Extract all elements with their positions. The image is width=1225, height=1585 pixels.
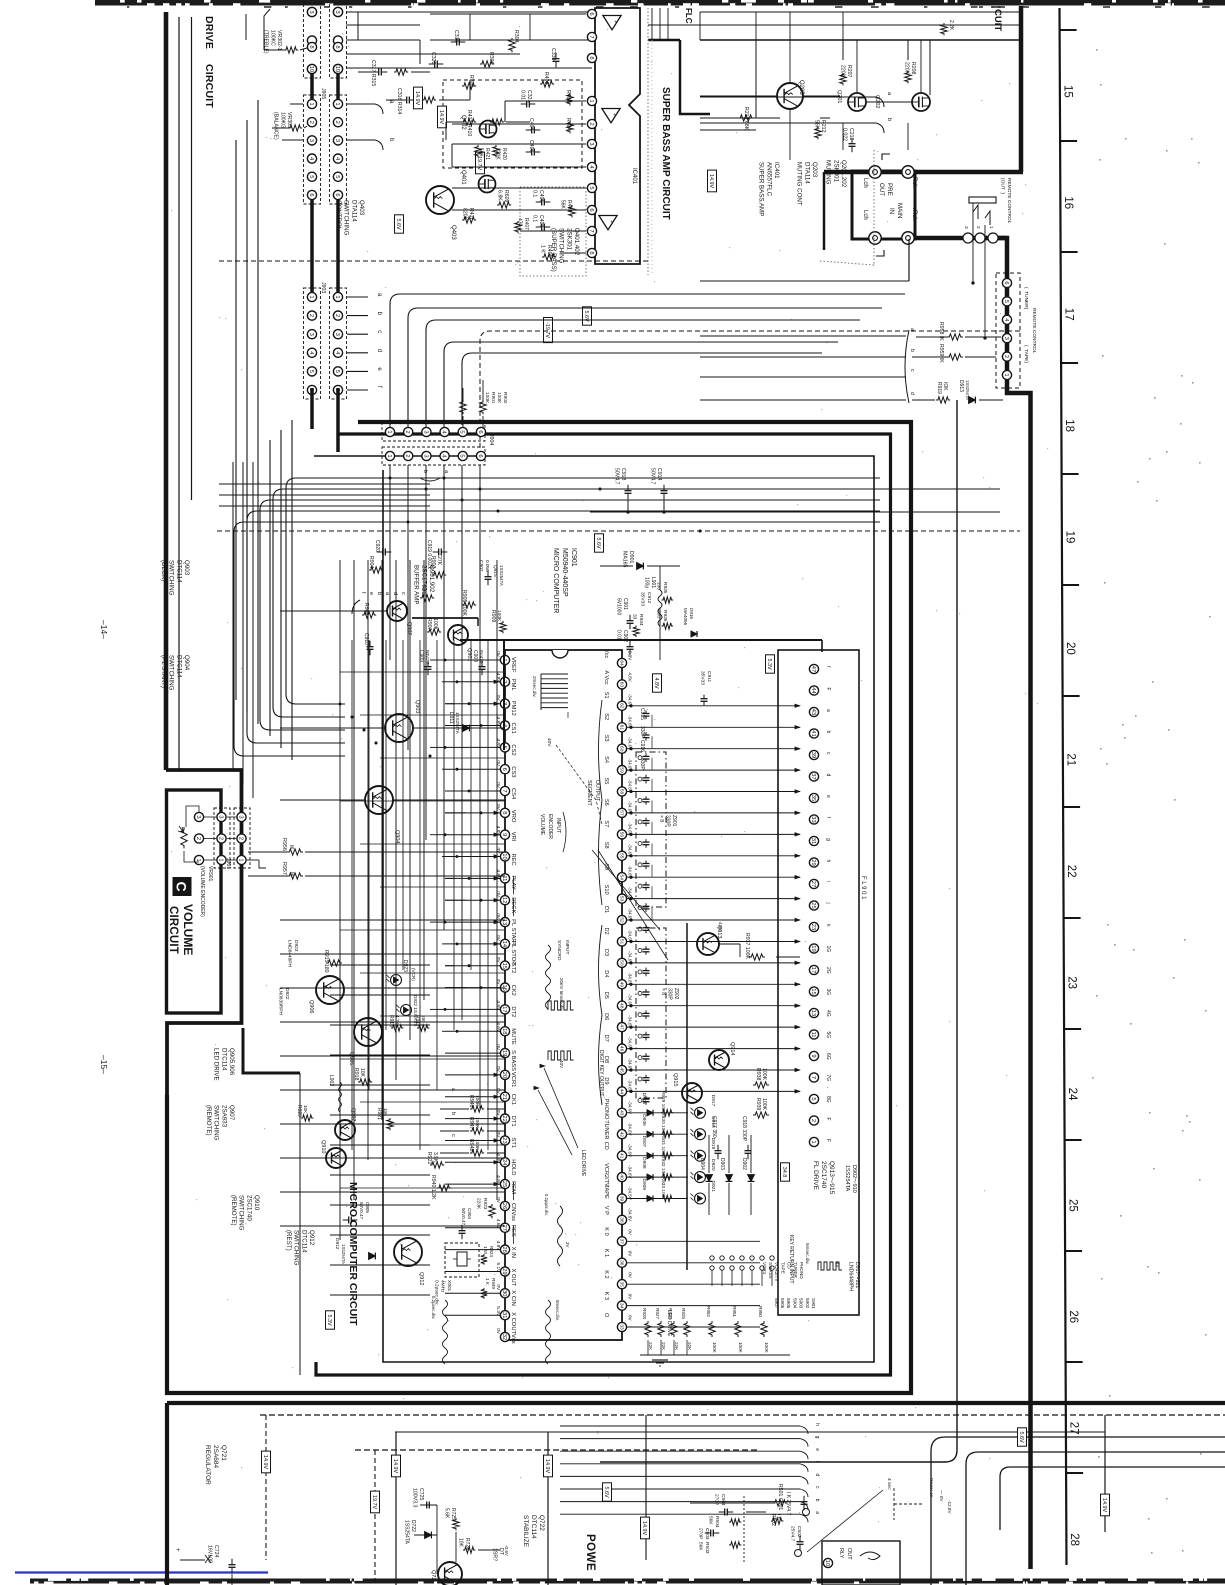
svg-text:F: F — [825, 1139, 831, 1142]
svg-text:ENCODER: ENCODER — [547, 814, 553, 839]
svg-text:DTC114: DTC114 — [175, 560, 182, 583]
svg-text:100µ: 100µ — [644, 577, 650, 588]
svg-text:h: h — [814, 1423, 820, 1426]
svg-text:0V: 0V — [495, 848, 501, 855]
svg-text:100K: 100K — [738, 1342, 743, 1354]
svg-text:10: 10 — [501, 853, 507, 859]
svg-text:42: 42 — [618, 1132, 624, 1138]
svg-text:Q401: Q401 — [460, 170, 466, 185]
svg-text:38: 38 — [618, 1217, 624, 1223]
svg-text:SWITCHING: SWITCHING — [168, 655, 175, 691]
svg-text:(REMOTE): (REMOTE) — [230, 1195, 237, 1226]
svg-text:Q912: Q912 — [418, 1272, 424, 1285]
svg-text:C911: C911 — [706, 671, 712, 682]
svg-text:-34.6V: -34.6V — [628, 1165, 633, 1178]
svg-text:D901: D901 — [628, 551, 634, 564]
svg-text:(REST): (REST) — [285, 1230, 292, 1251]
svg-text:DTC114: DTC114 — [300, 1230, 307, 1253]
svg-text:( TAPE): ( TAPE) — [1023, 345, 1029, 363]
svg-text:24: 24 — [501, 1159, 507, 1166]
svg-text:21: 21 — [1064, 753, 1076, 766]
svg-text:D903: D903 — [719, 1158, 725, 1170]
svg-text:CS3: CS3 — [510, 766, 516, 777]
svg-text:D920: D920 — [710, 1159, 716, 1171]
svg-text:0V: 0V — [495, 1044, 501, 1051]
svg-text:c: c — [376, 330, 382, 333]
svg-text:3: 3 — [1003, 337, 1009, 340]
svg-text:1: 1 — [810, 1140, 816, 1143]
svg-text:56K: 56K — [698, 1542, 704, 1551]
svg-text:5: 5 — [588, 186, 594, 189]
svg-text:g: g — [825, 838, 831, 841]
svg-text:Q910: Q910 — [253, 1195, 260, 1211]
svg-text:14.9V: 14.9V — [641, 1521, 647, 1535]
svg-text:0V: 0V — [495, 1132, 501, 1139]
svg-text:(REMOTE): (REMOTE) — [205, 1105, 212, 1136]
svg-text:15: 15 — [1061, 85, 1073, 98]
svg-text:3: 3 — [334, 333, 340, 336]
svg-text:— 0V: — 0V — [939, 1490, 944, 1502]
svg-text:2SC1740: 2SC1740 — [245, 1195, 252, 1221]
svg-text:23: 23 — [1065, 976, 1077, 989]
svg-text:0V: 0V — [495, 1088, 501, 1095]
svg-text:(SUPER BASS): (SUPER BASS) — [550, 228, 557, 272]
svg-text:3: 3 — [217, 815, 223, 818]
svg-text:0.1: 0.1 — [531, 190, 537, 197]
svg-text:R902: R902 — [502, 392, 508, 404]
svg-text:5: 5 — [459, 454, 465, 457]
svg-text:6: 6 — [477, 454, 483, 457]
svg-text:CK1: CK1 — [510, 1094, 516, 1105]
svg-text:PHONO: PHONO — [799, 1262, 804, 1279]
svg-text:R931 100: R931 100 — [660, 1134, 666, 1155]
svg-text:50V4.7: 50V4.7 — [649, 468, 655, 485]
svg-text:0.2µsec.div.: 0.2µsec.div. — [544, 1194, 549, 1216]
svg-text:35: 35 — [810, 795, 816, 801]
svg-text:220K: 220K — [476, 1198, 482, 1210]
svg-text:C310: C310 — [453, 30, 459, 43]
svg-text:100KG: 100KG — [279, 112, 285, 128]
svg-text:10: 10 — [824, 1560, 830, 1566]
svg-text:D902～910: D902～910 — [851, 1165, 857, 1193]
svg-text:R932 100: R932 100 — [660, 1155, 666, 1176]
svg-text:5: 5 — [1003, 300, 1009, 303]
svg-text:SWITCHING: SWITCHING — [168, 560, 175, 596]
svg-text:VCR1: VCR1 — [510, 1072, 516, 1087]
svg-text:0V: 0V — [495, 957, 501, 964]
svg-text:22K: 22K — [648, 1342, 653, 1351]
svg-text:C904: C904 — [467, 1208, 472, 1219]
svg-text:MA4056: MA4056 — [683, 608, 688, 626]
svg-text:2msec.div.: 2msec.div. — [532, 676, 537, 698]
svg-text:8: 8 — [308, 45, 314, 48]
svg-text:d: d — [392, 592, 398, 595]
svg-text:VOLUME: VOLUME — [181, 904, 195, 955]
svg-text:10K: 10K — [303, 1105, 308, 1114]
svg-text:25: 25 — [501, 1181, 507, 1187]
svg-text:64: 64 — [618, 660, 624, 666]
svg-text:1: 1 — [308, 102, 314, 105]
svg-text:330P: 330P — [665, 815, 671, 827]
svg-text:Q203: Q203 — [798, 80, 804, 95]
svg-text:37: 37 — [810, 773, 816, 779]
svg-text:D905: D905 — [641, 1093, 647, 1105]
svg-text:VCR1: VCR1 — [762, 1262, 767, 1275]
svg-text:a: a — [825, 709, 831, 712]
svg-text:R936: R936 — [662, 610, 668, 622]
svg-text:INPUT: INPUT — [564, 940, 570, 954]
svg-text:R609: R609 — [503, 190, 509, 203]
svg-text:5: 5 — [334, 370, 340, 373]
svg-text:5903: 5903 — [799, 1298, 804, 1309]
svg-text:1: 1 — [334, 295, 340, 298]
svg-text:CK2: CK2 — [510, 985, 516, 996]
svg-text:56K: 56K — [708, 1516, 714, 1525]
svg-text:K 1: K 1 — [603, 1249, 609, 1257]
svg-text:5.6V: 5.6V — [603, 1486, 609, 1497]
svg-text:5msec.div.: 5msec.div. — [555, 1300, 560, 1321]
svg-text:50: 50 — [618, 960, 624, 966]
svg-text:d: d — [376, 349, 382, 352]
svg-text:1: 1 — [237, 858, 243, 861]
svg-text:26: 26 — [501, 1203, 507, 1209]
svg-text:+: + — [174, 1548, 180, 1552]
svg-text:C503: C503 — [704, 1528, 710, 1540]
svg-text:SWITCHING: SWITCHING — [343, 200, 350, 236]
svg-text:CONTROL: CONTROL — [335, 200, 342, 231]
svg-text:rRch: rRch — [911, 208, 917, 221]
svg-text:5.6V: 5.6V — [395, 218, 401, 229]
svg-text:2: 2 — [810, 1119, 816, 1122]
svg-text:-34.6V: -34.6V — [628, 1144, 633, 1157]
svg-text:Lch: Lch — [862, 178, 868, 188]
svg-text:45: 45 — [618, 1067, 624, 1073]
svg-text:R939: R939 — [755, 1098, 761, 1111]
svg-text:SWITCHING: SWITCHING — [213, 1105, 220, 1141]
svg-text:1SS254TA: 1SS254TA — [404, 1520, 410, 1544]
svg-text:7: 7 — [810, 1076, 816, 1079]
svg-text:R929 100: R929 100 — [660, 1091, 666, 1112]
svg-text:AN6557FLC: AN6557FLC — [765, 162, 772, 197]
svg-text:17: 17 — [501, 1006, 507, 1012]
svg-text:14: 14 — [501, 941, 507, 948]
svg-text:1: 1 — [334, 102, 340, 105]
svg-text:Vss: Vss — [510, 1334, 516, 1344]
svg-text:M50940-440SP: M50940-440SP — [561, 548, 568, 597]
svg-text:S8: S8 — [603, 842, 609, 849]
svg-text:F L 9 0 1: F L 9 0 1 — [860, 876, 866, 900]
svg-text:2: 2 — [217, 837, 223, 840]
svg-text:IOK: IOK — [942, 382, 948, 391]
svg-text:SUPER BASS AMP CIRCUIT: SUPER BASS AMP CIRCUIT — [660, 87, 671, 220]
svg-text:S5: S5 — [603, 778, 609, 785]
svg-text:1SS254TA: 1SS254TA — [844, 1165, 850, 1192]
svg-text:C918 330P: C918 330P — [741, 1116, 747, 1142]
svg-text:0V: 0V — [495, 1197, 501, 1204]
svg-text:14.9V: 14.9V — [1101, 1498, 1107, 1512]
svg-text:-0.6V: -0.6V — [504, 1545, 509, 1557]
svg-text:S3: S3 — [603, 735, 609, 742]
svg-text:2SA933: 2SA933 — [220, 1105, 227, 1128]
svg-text:R308: R308 — [468, 75, 474, 88]
svg-text:270P: 270P — [698, 1528, 704, 1539]
svg-text:S4: S4 — [603, 756, 609, 763]
svg-text:C914: C914 — [656, 468, 662, 481]
svg-text:0.022: 0.022 — [841, 128, 847, 141]
svg-text:R956: R956 — [281, 838, 287, 851]
svg-text:R927: R927 — [655, 1308, 660, 1319]
svg-text:HOLD: HOLD — [510, 1159, 516, 1175]
svg-text:14.9V: 14.9V — [414, 91, 420, 105]
svg-text:Q902: Q902 — [406, 622, 412, 635]
svg-text:R207: R207 — [846, 65, 852, 78]
svg-text:-19.7V: -19.7V — [544, 322, 550, 338]
svg-text:j: j — [825, 902, 831, 904]
svg-text:62: 62 — [618, 703, 624, 709]
svg-text:22K: 22K — [674, 1342, 679, 1351]
svg-text:C: C — [174, 881, 190, 891]
svg-text:100V3.3: 100V3.3 — [411, 1488, 417, 1507]
svg-text:46: 46 — [618, 1046, 624, 1052]
svg-text:18: 18 — [501, 1028, 507, 1034]
svg-text:D909: D909 — [641, 1179, 647, 1191]
svg-text:2: 2 — [308, 121, 314, 124]
svg-text:47: 47 — [618, 1024, 624, 1030]
svg-text:5905: 5905 — [786, 1298, 791, 1309]
svg-text:Q403: Q403 — [358, 200, 365, 216]
svg-text:TAPE: TAPE — [603, 1185, 609, 1199]
svg-text:50V4.7: 50V4.7 — [613, 468, 619, 485]
svg-text:27: 27 — [810, 881, 816, 887]
svg-text:25: 25 — [810, 902, 816, 908]
svg-text:10K: 10K — [359, 1068, 365, 1078]
svg-text:DTC114: DTC114 — [220, 1048, 227, 1071]
svg-text:25: 25 — [1066, 1199, 1078, 1212]
svg-text:44: 44 — [618, 1089, 624, 1095]
svg-text:R926: R926 — [668, 1308, 673, 1319]
svg-text:IC401: IC401 — [773, 162, 780, 179]
svg-text:100K: 100K — [764, 1342, 769, 1354]
svg-text:100KC: 100KC — [269, 30, 275, 46]
svg-text:DTA114: DTA114 — [350, 200, 357, 222]
svg-text:FL DRIVE: FL DRIVE — [812, 1161, 819, 1191]
svg-text:5.3V: 5.3V — [766, 658, 772, 669]
svg-text:12: 12 — [501, 897, 507, 903]
svg-text:6.8K: 6.8K — [496, 190, 502, 201]
svg-text:2: 2 — [1003, 355, 1009, 358]
svg-text:CS2: CS2 — [510, 744, 516, 755]
svg-text:X OUT: X OUT — [510, 1269, 516, 1287]
svg-text:R725: R725 — [450, 1508, 456, 1520]
svg-text:Q402: Q402 — [460, 115, 466, 130]
svg-text:D917～921: D917～921 — [854, 1262, 860, 1288]
svg-text:3: 3 — [422, 454, 428, 457]
svg-text:28: 28 — [501, 1246, 507, 1252]
svg-text:10: 10 — [308, 66, 314, 72]
svg-text:d: d — [909, 392, 915, 395]
svg-text:3: 3 — [588, 142, 594, 145]
svg-text:1: 1 — [386, 454, 392, 457]
svg-text:SEGMENT: SEGMENT — [586, 780, 592, 806]
svg-text:R920: R920 — [296, 1105, 302, 1117]
svg-text:19: 19 — [810, 945, 816, 951]
svg-text:VREF: VREF — [510, 657, 516, 673]
svg-text:22K: 22K — [687, 1342, 692, 1351]
svg-text:52: 52 — [618, 917, 624, 923]
svg-text:7G: 7G — [825, 1075, 831, 1082]
svg-text:C724: C724 — [213, 1545, 219, 1558]
svg-text:31: 31 — [810, 838, 816, 844]
svg-text:DTC114: DTC114 — [530, 1515, 537, 1539]
svg-text:C502: C502 — [796, 1526, 802, 1538]
svg-text:53: 53 — [618, 896, 624, 902]
svg-text:35: 35 — [618, 1282, 624, 1288]
svg-text:R933 100: R933 100 — [660, 1177, 666, 1198]
svg-text:1SS254TA: 1SS254TA — [499, 565, 504, 586]
svg-text:27: 27 — [501, 1225, 507, 1231]
svg-text:REMOTE CONTROL: REMOTE CONTROL — [1031, 308, 1037, 354]
svg-text:POWE: POWE — [584, 1534, 596, 1571]
svg-text:5.3V: 5.3V — [628, 651, 633, 660]
svg-text:7: 7 — [588, 229, 594, 232]
svg-text:6: 6 — [334, 193, 340, 196]
svg-text:(VOLUME ENCODER): (VOLUME ENCODER) — [199, 866, 205, 917]
svg-text:OUTPUT: OUTPUT — [594, 780, 600, 802]
svg-text:5904: 5904 — [792, 1298, 797, 1309]
svg-text:2: 2 — [334, 121, 340, 124]
svg-text:(DECK): (DECK) — [160, 560, 167, 581]
svg-text:2: 2 — [195, 837, 201, 840]
svg-text:1 K: 1 K — [539, 245, 545, 253]
svg-text:Q901,902: Q901,902 — [428, 565, 435, 593]
svg-text:D917: D917 — [710, 1095, 716, 1107]
svg-text:CIRCUIT: CIRCUIT — [203, 64, 215, 108]
svg-text:5907: 5907 — [774, 1298, 779, 1309]
svg-text:L901: L901 — [650, 577, 656, 588]
svg-text:2: 2 — [334, 314, 340, 317]
svg-text:i: i — [825, 881, 831, 882]
svg-text:VOLUME: VOLUME — [539, 814, 545, 836]
svg-text:c: c — [450, 1134, 456, 1137]
svg-text:0.01: 0.01 — [616, 630, 622, 640]
svg-text:MUTING CONT: MUTING CONT — [796, 162, 803, 206]
svg-text:R950: R950 — [758, 1306, 763, 1317]
svg-text:31: 31 — [501, 1312, 507, 1318]
svg-text:SWITCHING: SWITCHING — [293, 1230, 300, 1266]
svg-text:5msec.div.: 5msec.div. — [805, 1243, 810, 1265]
svg-text:R951: R951 — [732, 1306, 737, 1317]
svg-text:Q203: Q203 — [811, 162, 818, 178]
svg-text:K 2: K 2 — [603, 1270, 609, 1278]
svg-text:C912: C912 — [646, 592, 652, 604]
svg-text:19: 19 — [501, 1050, 507, 1056]
svg-text:36: 36 — [618, 1260, 624, 1266]
svg-text:4 sec: 4 sec — [886, 1478, 892, 1490]
svg-text:DECK: DECK — [510, 897, 516, 913]
svg-text:22K: 22K — [661, 1342, 666, 1351]
svg-text:Q401,402: Q401,402 — [573, 228, 580, 256]
svg-text:C504: C504 — [720, 1494, 726, 1506]
svg-text:1G: 1G — [825, 946, 831, 953]
svg-text:a: a — [814, 1511, 820, 1514]
svg-text:D913: D913 — [958, 380, 964, 392]
svg-text:34.8: 34.8 — [781, 1167, 787, 1178]
svg-text:0.2µsec.div.: 0.2µsec.div. — [431, 1296, 436, 1319]
svg-text:0V: 0V — [495, 1066, 501, 1073]
svg-text:D916: D916 — [689, 608, 694, 619]
svg-text:S1: S1 — [603, 692, 609, 699]
svg-text:D6: D6 — [603, 1013, 609, 1020]
svg-text:I K 25V4.7: I K 25V4.7 — [785, 1492, 791, 1516]
svg-text:1SS254TA: 1SS254TA — [341, 1244, 346, 1264]
svg-text:Q903: Q903 — [414, 700, 420, 713]
svg-text:Q72: Q72 — [430, 1570, 436, 1580]
svg-text:2SK301: 2SK301 — [832, 160, 839, 183]
svg-text:PRE: PRE — [886, 183, 893, 196]
svg-text:39: 39 — [618, 1196, 624, 1202]
svg-text:R959 IK: R959 IK — [938, 344, 944, 363]
svg-text:Q722: Q722 — [538, 1515, 545, 1531]
svg-text:50V0.47: 50V0.47 — [461, 1208, 466, 1226]
svg-text:OUT: OUT — [846, 1548, 852, 1560]
svg-text:0V: 0V — [495, 891, 501, 898]
svg-text:23: 23 — [810, 924, 816, 930]
svg-text:b: b — [909, 349, 915, 352]
svg-text:Rch: Rch — [911, 177, 917, 188]
svg-text:D906: D906 — [641, 1114, 647, 1126]
svg-text:R923: R923 — [482, 1198, 488, 1210]
svg-text:g: g — [814, 1436, 820, 1439]
svg-text:5.6K: 5.6K — [444, 1508, 450, 1519]
svg-text:C905: C905 — [365, 1202, 370, 1213]
svg-text:Q905,906: Q905,906 — [228, 1048, 235, 1076]
svg-text:9: 9 — [810, 1054, 816, 1057]
svg-text:16: 16 — [1062, 196, 1074, 209]
svg-text:60: 60 — [618, 746, 624, 752]
svg-text:41: 41 — [810, 730, 816, 736]
svg-text:1 K: 1 K — [485, 1278, 490, 1286]
svg-text:1: 1 — [588, 99, 594, 102]
svg-text:10K: 10K — [383, 1108, 388, 1117]
svg-text:2SC1740: 2SC1740 — [820, 1161, 827, 1188]
svg-text:C901: C901 — [622, 598, 628, 610]
svg-text:b: b — [450, 1112, 456, 1115]
svg-text:D2: D2 — [603, 928, 609, 935]
svg-text:× 8: × 8 — [658, 815, 664, 822]
svg-text:22: 22 — [501, 1115, 507, 1121]
svg-text:MAIN: MAIN — [896, 203, 903, 218]
svg-text:DT2: DT2 — [510, 1006, 516, 1017]
svg-text:5902: 5902 — [805, 1298, 810, 1309]
svg-text:5G: 5G — [825, 1032, 831, 1039]
svg-text:X COUT: X COUT — [510, 1312, 516, 1334]
svg-text:BUFFER AMP: BUFFER AMP — [413, 565, 420, 605]
svg-text:C316 R314: C316 R314 — [396, 88, 402, 114]
svg-text:REM: REM — [510, 1181, 516, 1194]
svg-text:SWITCHING: SWITCHING — [558, 228, 565, 264]
svg-text:RLY: RLY — [838, 1548, 844, 1559]
svg-text:8: 8 — [501, 811, 507, 814]
svg-text:1: 1 — [308, 295, 314, 298]
svg-text:14.9V: 14.9V — [262, 1455, 268, 1469]
svg-text:100K: 100K — [712, 1342, 717, 1354]
svg-text:3: 3 — [422, 430, 428, 433]
svg-text:R212: R212 — [820, 120, 826, 133]
svg-text:3: 3 — [195, 815, 201, 818]
svg-text:C907: C907 — [478, 560, 484, 572]
svg-text:R928: R928 — [642, 1308, 647, 1319]
svg-text:10K: 10K — [458, 1538, 464, 1548]
